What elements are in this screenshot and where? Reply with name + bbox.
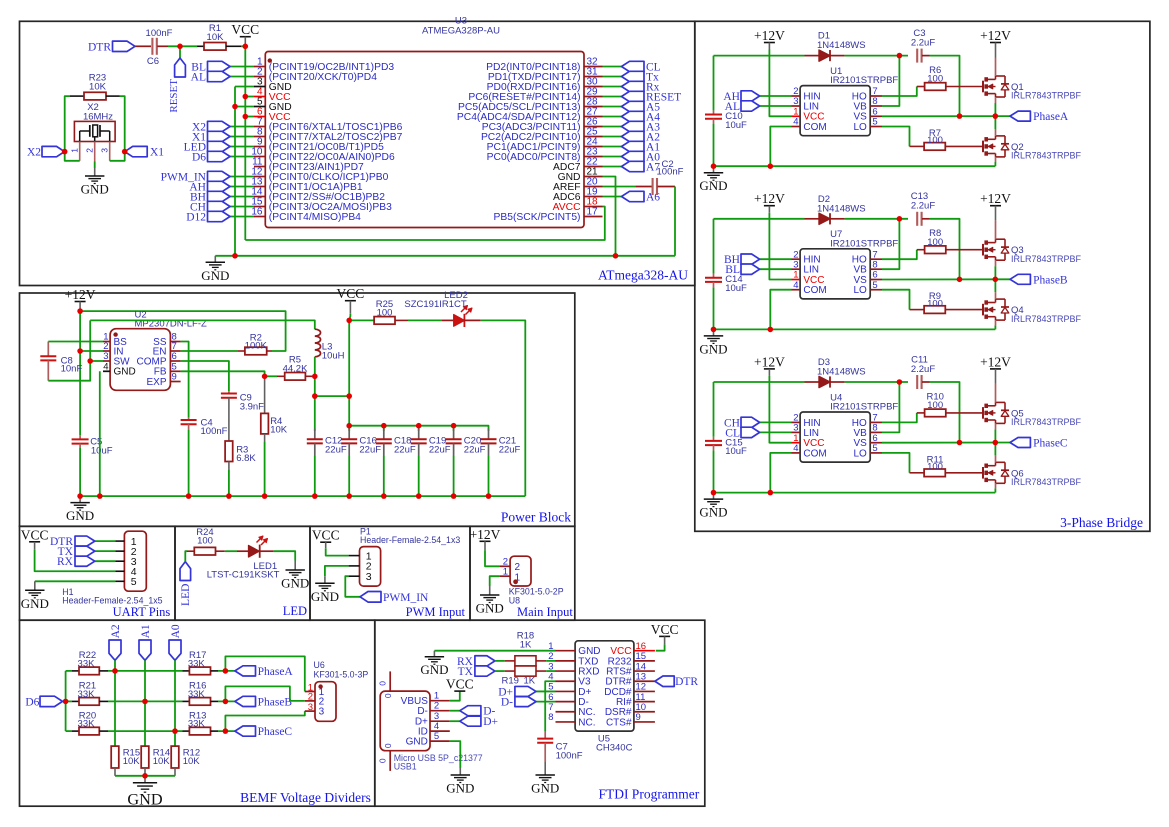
net port CL: [760, 431, 792, 433]
resistor R20: [66, 730, 72, 732]
svg-text:1: 1: [503, 567, 508, 578]
P1 pin 2: [349, 565, 360, 567]
U3 pin 17 PB5(SCK/PCINT5): [584, 216, 603, 218]
wire C12 to ground rail: [314, 456, 316, 496]
wire ground rail U1: [714, 165, 996, 167]
H1 pin 2: [115, 550, 124, 552]
wire C13 to VS: [930, 219, 960, 279]
wire IN to U2 pin2: [80, 350, 103, 352]
led LED2 SZC191IR1CT: [442, 319, 454, 321]
U1 pin 3 LIN: [792, 105, 801, 107]
wire VCC vertical to pins 4 6 and AVCC: [244, 46, 246, 240]
svg-text:+12V: +12V: [754, 354, 785, 369]
net port A1: [139, 640, 151, 660]
svg-text:9: 9: [636, 712, 641, 723]
wire GND vertical pins 3 5: [235, 86, 254, 88]
wire +12V rail U4: [714, 381, 805, 383]
junction: [262, 493, 268, 499]
net port RX ftdi: [475, 656, 495, 666]
junction: [346, 423, 352, 429]
transistor Q1 IRLR7843TRPBF: [982, 81, 984, 93]
svg-text:IR2101STRPBF: IR2101STRPBF: [830, 238, 898, 249]
U4 pin 3 LIN: [792, 431, 801, 433]
connector U6 KF301-5.0-3P: [315, 682, 336, 722]
connector H1 Header-Female-2.54_1x5: [124, 531, 146, 591]
ground channel U7: [713, 329, 715, 336]
wire U3 pin 27 to A4: [603, 116, 622, 118]
wire LO to R9: [882, 290, 910, 310]
ground main input: [489, 586, 491, 595]
connector P1 Header-Female-2.54_1x3: [360, 547, 381, 587]
ground C7: [544, 768, 546, 775]
wire C5 to ground rail: [79, 448, 81, 496]
svg-text:5: 5: [872, 280, 877, 291]
net port X1: [208, 131, 231, 141]
junction: [768, 327, 774, 333]
wire R1 to VCC: [241, 45, 245, 47]
U3 pin 7 (PCINT6/XTAL1/TOSC1)PB6: [254, 126, 265, 128]
U7 pin 3 LIN: [792, 268, 801, 270]
junction: [486, 493, 492, 499]
svg-text:+12V: +12V: [980, 191, 1011, 206]
svg-text:1: 1: [70, 148, 80, 153]
wire R25 to LED2: [408, 319, 442, 321]
transistor Q6 IRLR7843TRPBF: [982, 467, 984, 479]
resistor R8: [917, 249, 925, 251]
H1 pin 5: [115, 580, 124, 582]
U8 pin 2: [499, 565, 510, 567]
wire row PhaseB bemf: [108, 700, 183, 702]
net port CH: [208, 201, 231, 211]
U3 pin 14 (PCINT2/SS#/OC1B)PB2: [254, 196, 265, 198]
U7 pin 6 VS: [870, 279, 882, 281]
wire C21 to ground rail: [488, 456, 490, 496]
block border ATmega328-AU section: [20, 21, 695, 285]
wire R23 right to X1 node: [120, 96, 125, 152]
capacitor C8: [47, 342, 49, 357]
wire COMP to C9: [181, 361, 229, 391]
wire AH to U3 pin 13: [230, 186, 254, 188]
capacitor C11: [916, 375, 918, 389]
net port AL: [760, 105, 792, 107]
svg-text:IRLR7843TRPBF: IRLR7843TRPBF: [1011, 151, 1082, 161]
wire X1 to crystal pin3: [110, 152, 125, 161]
U3 pin 25 PC2(ADC2/PCINT10): [584, 136, 603, 138]
junction: [711, 327, 717, 333]
resistor R19: [495, 670, 505, 672]
svg-text:22uF: 22uF: [325, 444, 347, 455]
svg-text:(PCINT4/MISO)PB4: (PCINT4/MISO)PB4: [269, 212, 361, 223]
svg-text:CH340C: CH340C: [596, 743, 633, 754]
svg-text:2.2uF: 2.2uF: [911, 201, 935, 212]
U4 pin 8 VB: [870, 431, 882, 433]
wire link L3 to VCC: [315, 395, 349, 397]
U3 pin 21 GND: [584, 176, 603, 178]
U5 pin 5 D+: [556, 690, 576, 692]
wire CH to U3 pin 15: [230, 206, 254, 208]
wire U5 pin16 VCC: [656, 644, 665, 650]
wire C14 to ground: [713, 287, 715, 329]
crystal pin 3: [109, 141, 111, 160]
IC U1 IR2101STRPBF body: [800, 86, 870, 136]
wire VB node down U1: [882, 56, 899, 106]
diode D2 1N4148WS: [805, 218, 820, 220]
wire PWM_IN to U3 pin 12: [230, 176, 254, 178]
svg-text:D-: D-: [501, 697, 513, 709]
net port RX uart: [95, 560, 115, 562]
U2 pin 3 SW: [103, 360, 110, 362]
svg-text:3: 3: [366, 571, 372, 583]
wire D2 to VB node: [845, 218, 908, 220]
wire C2 to ground bus: [674, 187, 676, 256]
ground bemf: [144, 776, 146, 783]
U1 pin 4 COM: [792, 126, 801, 128]
net port LED flag: [180, 562, 191, 581]
wire R4 to ground rail: [264, 442, 266, 496]
junction: [613, 253, 619, 259]
svg-text:2.2uF: 2.2uF: [911, 364, 935, 375]
U2 pin 4 GND: [103, 370, 110, 372]
U2 pin 7 EN: [170, 350, 180, 352]
wire SS to C4: [181, 342, 189, 418]
crystal pin 1: [79, 141, 81, 160]
wire bemf row1 to U6 pin1: [225, 656, 304, 691]
wire VCC vertical: [348, 320, 350, 431]
resistor R9: [910, 309, 925, 311]
net port TX ftdi: [475, 666, 495, 676]
junction: [957, 277, 963, 283]
wire bemf row3 to U6 pin3: [225, 711, 304, 731]
junction: [451, 423, 457, 429]
svg-text:AL: AL: [725, 101, 740, 113]
capacitor C6: [151, 38, 153, 55]
net port D+ ftdi: [536, 690, 556, 692]
wire GND to H1 pin5: [35, 580, 115, 582]
svg-text:100: 100: [927, 74, 943, 85]
svg-text:GND: GND: [281, 576, 309, 591]
junction: [711, 163, 717, 169]
U3 pin 30 PD0(RXD/PCINT16): [584, 86, 603, 88]
net port BL: [760, 268, 792, 270]
net port PhaseA: [1010, 111, 1030, 121]
wire VB node down U4: [882, 382, 899, 432]
wire D6 to U3 pin 10: [230, 156, 254, 158]
block border FTDI Programmer box: [375, 620, 705, 806]
net port D12: [208, 211, 231, 221]
svg-text:Main Input: Main Input: [517, 605, 573, 619]
junction: [416, 423, 422, 429]
svg-text:4: 4: [793, 117, 798, 128]
wire U3 pin 32 to CL: [603, 66, 622, 68]
svg-text:10K: 10K: [183, 756, 201, 767]
junction: [232, 253, 238, 259]
net port AL: [208, 71, 231, 81]
diode D1 1N4148WS: [805, 55, 820, 57]
transistor Q1 source lead: [995, 97, 997, 103]
wire U3 pin 25 to A2: [603, 136, 622, 138]
wire +12V rail to R2: [80, 311, 286, 351]
svg-text:GND: GND: [127, 791, 162, 809]
net port PhaseC bemf: [235, 726, 256, 736]
wire +12V vertical to C5: [79, 311, 81, 435]
junction: [226, 493, 232, 499]
svg-text:GND: GND: [311, 589, 339, 604]
net port AH: [208, 181, 231, 191]
svg-text:D12: D12: [186, 211, 206, 223]
svg-text:+12V: +12V: [754, 191, 785, 206]
net port BH: [760, 258, 792, 260]
wire A2 vertical: [114, 660, 116, 746]
U3 pin 24 PC1(ADC1/PCINT9): [584, 146, 603, 148]
svg-text:Power Block: Power Block: [501, 510, 571, 525]
capacitor C5: [79, 435, 81, 439]
net port DTR ftdi: [655, 676, 674, 687]
net port A1: [622, 141, 645, 151]
svg-text:33K: 33K: [78, 689, 96, 700]
U8 pin 1: [499, 575, 510, 577]
wire R3 to ground rail: [228, 462, 230, 471]
wire COM to ground U4: [770, 453, 791, 493]
capacitor C3: [916, 49, 918, 63]
U3 pin 28 PC5(ADC5/SCL/PCINT13): [584, 106, 603, 108]
junction: [993, 277, 999, 283]
svg-text:A0: A0: [170, 624, 182, 638]
svg-text:DTR: DTR: [675, 676, 698, 688]
wire LED2 to ground rail: [481, 320, 526, 496]
transistor Q3 IRLR7843TRPBF: [982, 244, 984, 256]
U3 pin 8 (PCINT7/XTAL2/TOSC2)PB7: [254, 136, 265, 138]
ground ftdi top: [433, 651, 435, 657]
U7 pin 5 LO: [870, 289, 882, 291]
net port A0: [169, 640, 181, 660]
net port RESET: [622, 91, 645, 101]
wire ground rail U4: [714, 492, 996, 494]
net port D6: [208, 151, 231, 161]
U6 pin 2: [305, 700, 315, 702]
wire Q2 source to ground: [995, 157, 997, 162]
junction: [87, 358, 93, 364]
svg-text:+12V: +12V: [980, 28, 1011, 43]
junction: [223, 699, 229, 705]
junction: [312, 493, 318, 499]
svg-text:PhaseB: PhaseB: [258, 696, 293, 708]
IC U5 CH340C body: [575, 641, 634, 731]
svg-text:CL: CL: [725, 427, 740, 439]
capacitor C10: [713, 56, 715, 111]
wire C10 to ground: [713, 124, 715, 166]
wire LED1 to ground: [273, 551, 295, 560]
junction: [993, 113, 999, 119]
junction: [346, 318, 352, 324]
junction: [957, 440, 963, 446]
svg-text:GND: GND: [201, 268, 229, 283]
USB1 shield pin top: [389, 671, 391, 691]
U3 pin 5 GND: [254, 106, 265, 108]
wire Q4 source to ground: [995, 320, 997, 325]
U5 pin 3 RXD: [556, 670, 576, 672]
U3 pin 18 AVCC: [584, 206, 603, 208]
net port BH: [208, 191, 231, 201]
H1 pin 3: [115, 560, 124, 562]
resistor R1: [197, 45, 204, 47]
resistor R4: [264, 376, 266, 413]
svg-text:100nF: 100nF: [556, 750, 583, 761]
junction: [243, 44, 249, 50]
svg-text:D+: D+: [483, 716, 498, 728]
ground uart: [34, 581, 36, 590]
wire COM to ground U7: [770, 290, 791, 330]
wire X2 to U3 pin 7: [230, 126, 254, 128]
resistor R12: [171, 746, 179, 768]
H1 pin 4: [115, 570, 124, 572]
svg-text:GND: GND: [699, 505, 727, 520]
svg-text:GND: GND: [476, 601, 504, 616]
svg-text:2: 2: [515, 562, 521, 573]
svg-text:BEMF Voltage Dividers: BEMF Voltage Dividers: [240, 790, 371, 805]
U2 pin 9 EXP: [170, 381, 180, 383]
svg-text:Header-Female-2.54_1x3: Header-Female-2.54_1x3: [360, 535, 460, 545]
capacitor C9: [228, 391, 230, 393]
svg-text:2.2uF: 2.2uF: [911, 37, 935, 48]
transistor Q3 source lead: [995, 260, 997, 266]
svg-text:8: 8: [548, 712, 553, 723]
net port X2: [42, 146, 65, 156]
svg-text:IRLR7843TRPBF: IRLR7843TRPBF: [1011, 91, 1082, 101]
svg-text:5: 5: [872, 443, 877, 454]
net port A6: [622, 191, 645, 201]
IC U4 IR2101STRPBF body: [800, 412, 870, 462]
U7 pin 1 VCC: [792, 279, 801, 281]
junction: [223, 728, 229, 734]
U1 pin 1 VCC: [792, 115, 801, 117]
resistor R17: [183, 670, 190, 672]
svg-text:4: 4: [793, 443, 798, 454]
svg-text:0: 0: [383, 743, 393, 748]
junction: [63, 699, 69, 705]
svg-text:100: 100: [927, 298, 943, 309]
wire +12V to U8 pin2: [485, 550, 499, 566]
wire C15 to ground: [713, 450, 715, 492]
net port X2: [208, 121, 231, 131]
USB1 shield pin bottom: [389, 751, 391, 771]
net port TX uart: [95, 550, 115, 552]
net port Rx: [622, 81, 645, 91]
U3 pin 23 PC0(ADC0/PCINT8): [584, 156, 603, 158]
wire VS PhaseA row U1: [882, 115, 1010, 117]
wire bottom ground bus: [215, 255, 675, 257]
wire DTR to C6: [135, 45, 151, 47]
svg-text:VCC: VCC: [337, 286, 365, 301]
junction: [312, 374, 318, 380]
ground usb: [459, 768, 461, 775]
wire A1 vertical: [144, 660, 146, 746]
svg-text:+12V: +12V: [980, 354, 1011, 369]
junction: [711, 490, 717, 496]
ground power block: [79, 496, 81, 503]
svg-text:COM: COM: [803, 285, 826, 296]
svg-text:22uF: 22uF: [429, 444, 451, 455]
wire R23 left to X2 node: [65, 96, 70, 152]
junction: [142, 699, 148, 705]
resistor R22: [66, 670, 72, 672]
svg-text:10uH: 10uH: [322, 350, 345, 361]
wire HO to R8: [882, 250, 917, 260]
svg-text:LED: LED: [283, 604, 307, 618]
svg-text:VCC: VCC: [651, 622, 679, 637]
wire VB node down U7: [882, 219, 899, 269]
net port D- usb: [450, 710, 460, 712]
svg-text:22uF: 22uF: [464, 444, 486, 455]
svg-text:2: 2: [85, 148, 95, 153]
wire LED to U3 pin 9: [230, 146, 254, 148]
U3 pin 6 VCC: [254, 116, 265, 118]
wire HO to R6: [882, 87, 917, 97]
U2 pin 5 FB: [170, 370, 180, 372]
junction: [77, 493, 83, 499]
U3 pin 16 (PCINT4/MISO)PB4: [254, 216, 265, 218]
wire C4 to ground rail: [188, 430, 190, 496]
capacitor C7: [544, 731, 546, 738]
U5 pin 13 DTR#: [634, 680, 655, 682]
junction: [897, 216, 903, 222]
svg-text:SZC191IR1CT: SZC191IR1CT: [404, 299, 466, 310]
net port LED: [208, 141, 231, 151]
wire U3 pin 23 to A0: [603, 156, 622, 158]
capacitor C15: [713, 382, 715, 437]
U5 pin 1 GND: [556, 650, 576, 652]
svg-text:10uF: 10uF: [725, 283, 747, 294]
U3 pin 13 (PCINT1/OC1A)PB1: [254, 186, 265, 188]
U5 pin 14 RTS#: [634, 670, 655, 672]
wire U3 pin 30 to Rx: [603, 86, 622, 88]
wire GND to P1 pin2: [325, 566, 349, 576]
svg-text:NC.: NC.: [578, 717, 595, 728]
wire bemf row2 to U6 pin2: [225, 686, 304, 701]
svg-text:VCC: VCC: [21, 527, 49, 542]
net port CH: [760, 421, 792, 423]
svg-text:3-Phase Bridge: 3-Phase Bridge: [1060, 515, 1143, 530]
net port D+ usb: [450, 720, 460, 722]
U3 pin 4 VCC: [254, 96, 265, 98]
wire U3 pin 19 to A6: [603, 196, 622, 198]
block border 3-Phase Bridge section: [695, 21, 1150, 531]
wire to net port PhaseA: [218, 670, 235, 672]
svg-text:D-: D-: [417, 706, 428, 717]
net port Tx: [622, 71, 645, 81]
transistor Q5 IRLR7843TRPBF: [982, 407, 984, 419]
capacitor C16: [348, 429, 350, 440]
net port RESET: [179, 46, 181, 58]
wire SW to L3: [90, 320, 315, 329]
U4 pin 5 LO: [870, 452, 882, 454]
wire C16 to ground rail: [348, 456, 350, 496]
svg-text:100: 100: [927, 135, 943, 146]
transistor Q2 IRLR7843TRPBF: [982, 141, 984, 153]
U4 pin 6 VS: [870, 442, 882, 444]
capacitor C2: [635, 186, 652, 188]
U5 pin 16 VCC: [634, 650, 655, 652]
USB1 pin 5 GND: [430, 740, 450, 742]
svg-text:X1: X1: [150, 147, 164, 159]
ground led box: [294, 561, 296, 571]
wire U5 pin4 to C7: [545, 681, 555, 731]
resistor R7: [910, 145, 925, 147]
IC U7 IR2101STRPBF body: [800, 249, 870, 299]
svg-text:10uF: 10uF: [91, 446, 113, 457]
USB1 pin 2 D-: [430, 710, 450, 712]
block border BEMF Voltage Dividers box: [20, 620, 375, 806]
svg-text:ATMEGA328P-AU: ATMEGA328P-AU: [422, 26, 500, 37]
